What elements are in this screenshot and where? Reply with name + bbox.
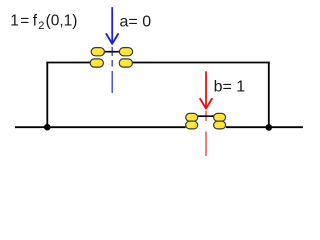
svg-text:=: =: [20, 12, 29, 29]
switch b: bridge bar: [198, 115, 214, 117]
svg-text:b= 1: b= 1: [214, 79, 246, 96]
control input a: dashed gate line: [111, 47, 113, 93]
switch b: bridge contact right: [214, 113, 226, 121]
control input a: blue arrow: [106, 7, 118, 44]
switch a: bridge contact left: [91, 48, 104, 56]
svg-text:(0,1): (0,1): [46, 12, 78, 29]
node left junction: [44, 124, 51, 131]
node right junction: [266, 124, 273, 131]
svg-text:f: f: [33, 12, 38, 29]
wire top-right segment: [132, 62, 270, 64]
control input b: dashed gate line: [205, 111, 207, 157]
switch a: terminal contact right: [119, 59, 132, 67]
switch b: terminal contact left: [186, 121, 198, 129]
wire bottom-left segment: [15, 126, 186, 128]
switch a: bridge contact right: [119, 48, 132, 56]
svg-text:1: 1: [10, 12, 19, 29]
switch a: bridge bar: [104, 51, 120, 53]
wire top-left segment: [46, 62, 91, 64]
wire bottom-right segment: [226, 126, 303, 128]
control input b: red arrow: [200, 71, 212, 108]
switch b: bridge contact left: [186, 113, 198, 121]
wire left vertical: [46, 62, 48, 128]
switch a: terminal contact left: [90, 59, 103, 67]
wire right vertical: [268, 62, 270, 128]
label formula 1 = f2(0,1): [10, 12, 77, 32]
switch b: terminal contact right: [214, 121, 226, 129]
svg-text:2: 2: [38, 20, 44, 32]
svg-text:a= 0: a= 0: [120, 14, 152, 31]
